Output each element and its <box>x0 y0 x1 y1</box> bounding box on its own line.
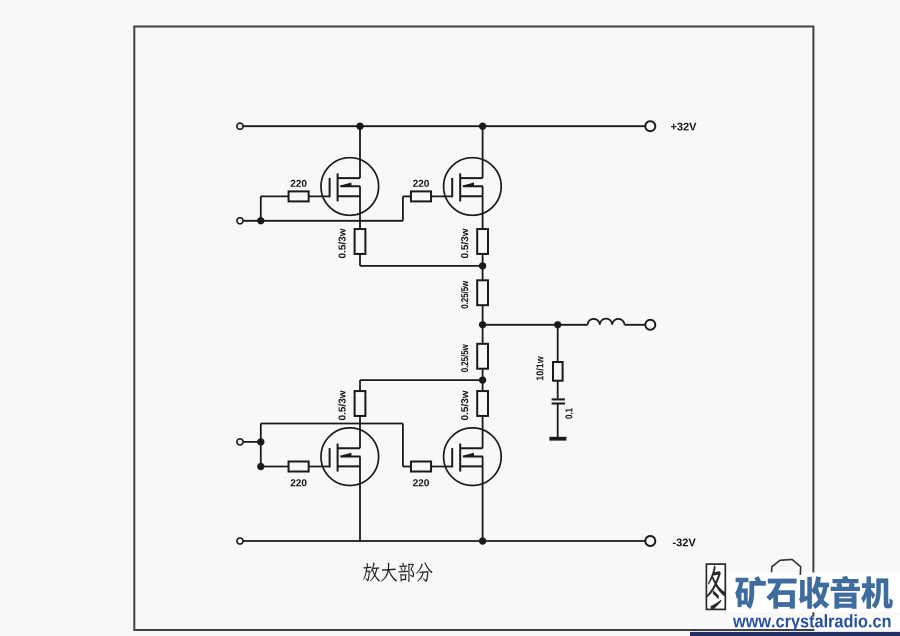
wire: node A to node B <box>260 442 262 467</box>
logo white backing box (url row) <box>730 617 900 629</box>
wire: 0.25/5w lower to lower tie node <box>482 369 484 381</box>
wire: upper input run to Q2 branch <box>261 220 403 222</box>
resistor 0.5/3w (Q3 source) <box>355 391 366 416</box>
junction: output node <box>479 321 486 328</box>
drawing sheet border frame <box>134 27 813 631</box>
resistor 0.25/5w (lower output) <box>477 344 488 369</box>
wire: lower input to junction <box>243 441 261 443</box>
inductor L1 (output choke, 3 turns) <box>588 319 625 325</box>
wire: node to 10/1w resistor <box>557 325 559 362</box>
label +32V <box>671 123 696 131</box>
wire: riser to Q2 gate resistor <box>402 196 404 220</box>
wire: tie line to 0.5/3w (Q3 source) <box>359 380 361 391</box>
wire: node to 0.25/5w upper <box>482 266 484 281</box>
wire: 0.25/5w upper to output node <box>482 305 484 325</box>
junction: Q2 drain to +32V rail <box>479 123 486 130</box>
junction: upper input node <box>257 217 264 224</box>
junction: Zobel network node <box>554 321 561 328</box>
resistor 220 (Q4 gate stopper) <box>411 462 431 472</box>
wire: lower input run over Q3 to Q4 branch <box>261 423 403 425</box>
label 220 (Q1 gate) <box>291 180 307 187</box>
wire: 10/1w to capacitor <box>557 381 559 399</box>
junction: lower source tie node <box>479 376 486 383</box>
wire: node A riser <box>260 424 262 442</box>
wire: node B to Q3 gate resistor <box>261 466 289 468</box>
wire: Q2 source down to 0.5/3w <box>482 186 484 229</box>
wire: Q1 gate lead <box>309 195 330 197</box>
label 0.1 <box>565 408 572 419</box>
label -32V <box>673 539 696 547</box>
wire: output node to 0.25/5w lower <box>482 325 484 344</box>
resistor 0.5/3w (Q2 source) <box>477 229 488 254</box>
N-channel power MOSFET Q4 (circle envelope, gate bar, channel, source/drain stubs, body arrow) <box>444 428 502 486</box>
logo crystal rock outline <box>772 559 801 575</box>
label 0.25/5w (lower) <box>461 344 468 372</box>
wire: -32V bottom supply rail <box>243 540 645 542</box>
logo url www.crystalradio.cn <box>733 614 891 631</box>
terminal: -32V rail left pin <box>237 538 243 544</box>
junction: Q4 drain to -32V rail <box>479 537 486 544</box>
label 220 (Q2 gate) <box>413 180 429 187</box>
wire: Q1 drain to rail <box>359 126 361 178</box>
resistor 220 (Q3 gate stopper) <box>289 462 309 472</box>
terminal: speaker output <box>645 320 655 330</box>
resistor 10/1w (Zobel) <box>553 362 563 381</box>
logo navy baseline bar <box>690 632 900 636</box>
wire: up to Q1 gate resistor row <box>260 196 262 220</box>
label 220 (Q4 gate) <box>413 479 429 486</box>
ground symbol (bar) <box>549 437 566 441</box>
wire: Q1 source down to 0.5/3w <box>359 186 361 229</box>
wire: lower tie line to Q3 branch <box>360 379 483 381</box>
junction: upper source tie node <box>479 262 486 269</box>
wire: 0.5/3w to Q4 source <box>482 416 484 449</box>
label 0.5/3w (Q4 source) <box>461 391 468 421</box>
wire: Q3 gate lead <box>309 466 330 468</box>
N-channel power MOSFET Q2 (circle envelope, gate bar, channel, source/drain stubs, body arrow) <box>444 158 502 216</box>
wire: Q3 drain to -32V rail <box>359 457 361 542</box>
junction: Q1 drain to +32V rail <box>356 123 363 130</box>
logo white backing box (big characters row) <box>727 573 900 613</box>
wire: +32V top supply rail <box>243 125 645 127</box>
wire: to output inductor <box>558 324 588 326</box>
label 220 (Q3 gate) <box>291 479 307 486</box>
logo stamp inner character 冬 <box>706 565 725 610</box>
wire: inductor to output terminal <box>625 324 646 326</box>
junction: lower input node B <box>257 463 264 470</box>
logo stamp frame (tall rectangle) <box>706 564 725 609</box>
wire: 0.5/3w to Q3 source <box>359 416 361 449</box>
junction: lower input node A <box>257 438 264 445</box>
wire: drop to Q4 gate resistor row <box>402 424 404 467</box>
label 0.5/3w (Q3 source) <box>338 391 345 421</box>
wire: Q2 drain to rail <box>482 126 484 178</box>
N-channel power MOSFET Q1 (circle envelope, gate bar, channel, source/drain stubs, body arrow) <box>321 158 379 216</box>
wire: to Q2 gate resistor <box>403 195 411 197</box>
terminal: +32V supply <box>645 121 655 131</box>
capacitor 0.1 (Zobel) bottom plate <box>552 402 565 404</box>
resistor 0.5/3w (Q1 source) <box>355 229 366 254</box>
label 0.5/3w (Q2 source) <box>461 229 468 259</box>
wire: Q1 source resistor to upper tie line <box>359 254 361 266</box>
terminal: lower gate-drive input <box>237 439 243 445</box>
resistor 220 (Q1 gate stopper) <box>289 191 309 201</box>
wire: to Q4 gate resistor <box>403 466 411 468</box>
caption text 放大部分 (amplifier section) <box>363 562 432 582</box>
wire: output node to Zobel node <box>483 324 558 326</box>
terminal: +32V rail left pin <box>237 123 243 129</box>
wire: capacitor to ground <box>557 404 559 438</box>
resistor 220 (Q2 gate stopper) <box>411 191 431 201</box>
resistor 0.25/5w (upper output) <box>477 280 488 305</box>
label 10/1w <box>536 356 543 380</box>
label 0.5/3w (Q1 source) <box>338 229 345 259</box>
wire: to Q1 gate resistor <box>261 195 289 197</box>
wire: Q2 gate lead <box>431 195 452 197</box>
wire: upper tie line to centre column <box>360 265 483 267</box>
logo text 矿石收音机 (crystalradio) <box>735 576 893 609</box>
wire: Q2 source resistor to node <box>482 254 484 266</box>
resistor 0.5/3w (Q4 source) <box>477 391 488 416</box>
wire: Q4 drain to -32V rail <box>482 457 484 542</box>
capacitor 0.1 (Zobel) top plate <box>552 398 565 400</box>
terminal: -32V supply <box>645 536 655 546</box>
wire: node to 0.5/3w (Q4 source) <box>482 380 484 391</box>
wire: Q4 gate lead <box>431 466 452 468</box>
wire: upper input to junction <box>243 220 261 222</box>
N-channel power MOSFET Q3 (circle envelope, gate bar, channel, source/drain stubs, body arrow) <box>321 428 379 486</box>
label 0.25/5w (upper) <box>461 281 468 309</box>
terminal: upper gate-drive input <box>237 218 243 224</box>
